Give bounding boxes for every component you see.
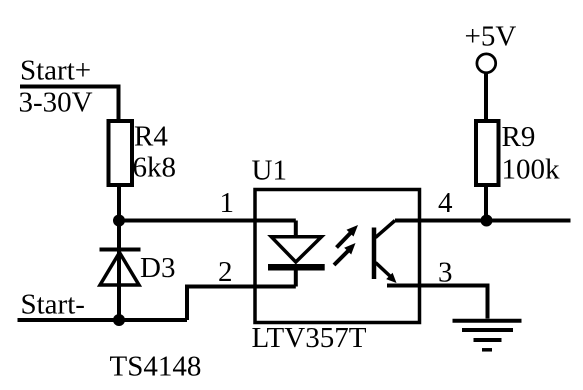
transistor Q1 (phototransistor) <box>374 221 397 284</box>
wire Start- to node B <box>18 318 188 322</box>
node +5V terminal <box>477 54 496 73</box>
wire R4 to node A <box>117 185 121 221</box>
svg-text:TS4148: TS4148 <box>110 351 202 383</box>
svg-text:6k8: 6k8 <box>133 152 177 184</box>
wire pin 3 to ground <box>387 286 488 319</box>
node A junction <box>113 215 125 227</box>
wire Start+ to R4 <box>20 87 119 122</box>
wire node B to pin 2 <box>187 287 296 321</box>
ground <box>453 321 522 350</box>
svg-text:R9: R9 <box>502 121 536 153</box>
light arrow 1 <box>337 225 359 248</box>
LED inside U1 <box>268 221 325 287</box>
wire pin 4 to right edge <box>395 219 571 223</box>
op-amp U1 optocoupler box <box>255 190 420 323</box>
svg-text:LTV357T: LTV357T <box>252 322 367 354</box>
svg-text:3-30V: 3-30V <box>19 87 93 119</box>
svg-text:U1: U1 <box>252 155 287 187</box>
node B junction <box>113 314 125 326</box>
wire node C to R9 <box>484 185 488 221</box>
resistor R9 <box>476 121 499 185</box>
wire R9 to +5V terminal <box>484 73 488 122</box>
node C junction <box>481 215 493 227</box>
svg-text:Start+: Start+ <box>20 55 91 87</box>
svg-text:+5V: +5V <box>465 21 517 53</box>
svg-text:100k: 100k <box>502 154 561 186</box>
resistor R4 <box>109 121 133 185</box>
diode D3 <box>100 221 141 321</box>
svg-text:1: 1 <box>220 187 235 219</box>
svg-text:D3: D3 <box>140 252 175 284</box>
svg-text:Start-: Start- <box>21 289 85 321</box>
svg-text:R4: R4 <box>134 121 168 153</box>
svg-text:2: 2 <box>218 256 233 288</box>
svg-text:4: 4 <box>438 187 453 219</box>
wire node A to LED anode (pin 1 net) <box>119 219 296 223</box>
light arrow 2 <box>334 243 356 265</box>
